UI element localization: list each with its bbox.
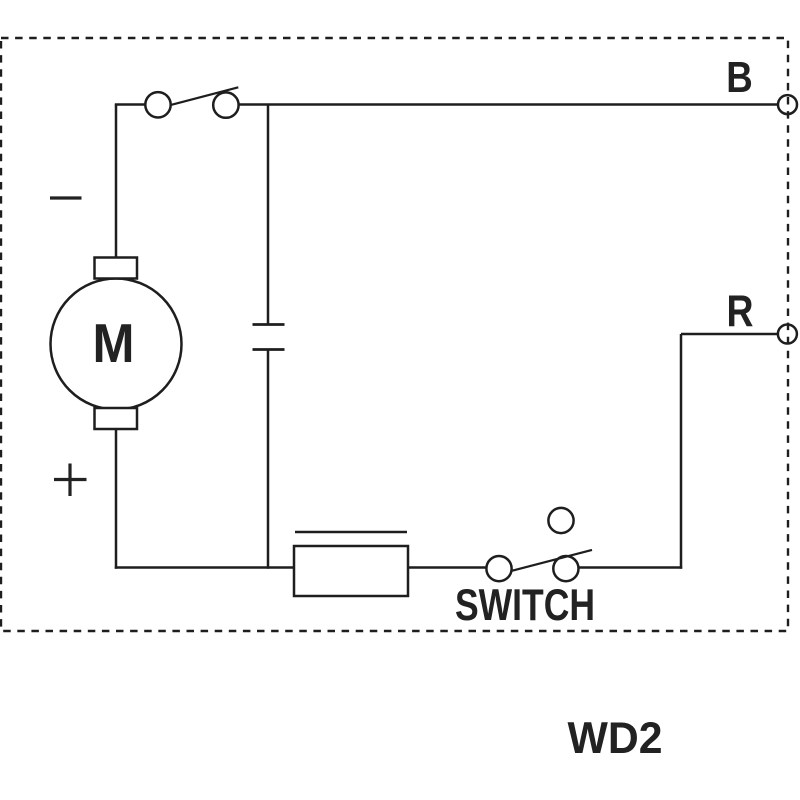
wire: capacitor branch lower vertical [267, 350, 270, 569]
motor M1 bottom terminal block [95, 408, 138, 429]
wire: capacitor branch upper vertical [267, 105, 270, 325]
capacitor C1 bottom plate [253, 348, 285, 351]
dashed enclosure border [1, 38, 788, 631]
protector overline [295, 531, 407, 534]
switch S1 lever [171, 87, 238, 105]
motor M1 body circle [51, 279, 182, 410]
wire: bottom horizontal right segment [578, 566, 682, 569]
switch S2 right contact circle [553, 556, 578, 581]
switch S1 right contact circle [213, 92, 238, 117]
thermal protector body rectangle [294, 546, 408, 596]
capacitor C1 top plate [253, 323, 285, 326]
terminal B circle [778, 95, 797, 114]
svg-text:WD2: WD2 [568, 714, 663, 763]
svg-text:M: M [93, 313, 135, 374]
wire: bottom-left vertical from motor [115, 429, 118, 569]
switch S2 left contact circle [486, 556, 511, 581]
terminal R circle [778, 325, 797, 344]
wire: bottom horizontal middle segment [408, 566, 487, 569]
wire: horizontal to terminal R [681, 333, 778, 336]
svg-text:SWITCH: SWITCH [455, 581, 595, 630]
switch S2 lever [511, 550, 592, 571]
wire: top-left vertical from switch to motor [115, 105, 118, 259]
plus polarity label horizontal bar [54, 478, 87, 481]
wire: bottom horizontal left segment [115, 566, 295, 569]
plus polarity label vertical bar [68, 464, 71, 497]
wire: right vertical riser to R [680, 334, 683, 569]
svg-text:R: R [727, 287, 754, 336]
minus polarity label [50, 196, 82, 199]
wire: top horizontal left segment [115, 103, 146, 106]
switch S2 upper contact circle [548, 508, 573, 533]
svg-text:B: B [726, 54, 753, 102]
switch S1 left contact circle [145, 92, 170, 117]
motor M1 top terminal block [95, 258, 138, 279]
wire: top horizontal right segment to terminal B [239, 103, 779, 106]
